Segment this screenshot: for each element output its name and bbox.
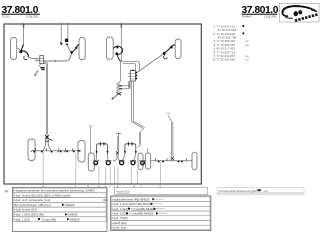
standpipe right stubs xyxy=(119,85,122,86)
hose FL xyxy=(113,46,122,54)
svg-text:(a): (a) xyxy=(245,54,249,58)
middle top single box xyxy=(115,188,208,195)
svg-text:77 30 914 731: 77 30 914 731 xyxy=(217,24,236,28)
left block rows xyxy=(13,188,106,221)
coupling nub at feed line top xyxy=(23,25,24,28)
staple U left xyxy=(97,144,108,155)
main diagram box xyxy=(4,24,201,184)
X connector xyxy=(171,157,174,161)
svg-text:Hydr. 1 (E4) (E50) (4B) MH009: Hydr. 1 (E4) (E50) (4B) MH009 xyxy=(112,202,152,206)
bottom-right single box xyxy=(217,188,304,195)
svg-text:77 04 955 443: 77 04 955 443 xyxy=(217,39,236,43)
svg-text:Hydr. 1 (E3): Hydr. 1 (E3) xyxy=(14,217,29,221)
axle line xyxy=(151,160,192,162)
curls xyxy=(94,161,145,165)
svg-text:MH009: MH009 xyxy=(65,203,75,207)
wheel RR xyxy=(192,152,197,170)
axle line xyxy=(32,150,81,152)
svg-text:Hydr. einheit (E1) (E3) (E50): Hydr. einheit (E1) (E3) (E50) (UABS) zwe… xyxy=(14,193,71,197)
svg-text:77 10 962 087: 77 10 962 087 xyxy=(217,43,236,47)
svg-text:Hydr. einh. einbauteile (zus): Hydr. einh. einbauteile (zus) xyxy=(14,198,50,202)
standpipe xyxy=(117,83,119,93)
title right "37.801.0" xyxy=(242,5,279,18)
wheel FR xyxy=(175,39,181,59)
hose FR xyxy=(164,45,175,53)
parts list right column xyxy=(214,24,249,61)
Y split to axle xyxy=(43,140,46,151)
line block to hose FR xyxy=(44,53,72,61)
title left "37.801.0" xyxy=(2,5,41,18)
svg-text:80 30 027 431: 80 30 027 431 xyxy=(217,47,236,51)
svg-text:77 04 905 719: 77 04 905 719 xyxy=(217,50,236,54)
ports xyxy=(135,72,137,74)
center X connector xyxy=(116,151,119,155)
svg-text:Bremsdruckregler (4B) (zus): Bremsdruckregler (4B) (zus) xyxy=(14,203,50,207)
union below block xyxy=(40,67,44,69)
left stubs xyxy=(128,74,131,77)
svg-text:7 (zus) (4B): 7 (zus) (4B) xyxy=(41,217,56,221)
fan line to unit xyxy=(137,54,163,72)
fitting lower-left xyxy=(39,64,40,67)
wheel RL xyxy=(146,153,151,169)
svg-text:Hydr. einheit (E4): Hydr. einheit (E4) xyxy=(14,208,36,212)
svg-text:(a): (a) xyxy=(245,43,249,47)
svg-text:7 (zus)(4B) MH009: 7 (zus)(4B) MH009 xyxy=(131,207,156,211)
svg-text:bremskreislauf abstuetzung (E3: bremskreislauf abstuetzung (E3) xyxy=(219,189,258,193)
svg-text:Hydr. 5 (E3): Hydr. 5 (E3) xyxy=(112,211,127,215)
right vertical pair xyxy=(140,129,143,132)
svg-text:Hydr. 1 (E3): Hydr. 1 (E3) xyxy=(112,207,127,211)
wheel RR xyxy=(78,141,85,163)
fittings xyxy=(156,158,187,162)
wheel RL xyxy=(88,153,94,171)
middle block rows xyxy=(111,196,211,231)
svg-text:Kontr. blue: Kontr. blue xyxy=(112,226,126,230)
feed line 3 xyxy=(67,23,69,39)
staple U right xyxy=(125,144,136,155)
leaders down xyxy=(99,167,138,184)
svg-text:(a): (a) xyxy=(245,39,249,43)
feed double with diagonal xyxy=(168,116,172,123)
hose FL xyxy=(18,48,21,51)
wheel RL xyxy=(28,139,35,161)
wheel FL xyxy=(11,38,17,60)
svg-text:7 (zus)(4B) MH009: 7 (zus)(4B) MH009 xyxy=(129,211,154,215)
feed line 1 xyxy=(23,23,25,45)
svg-text:MH009: MH009 xyxy=(68,213,78,217)
svg-text:(b): (b) xyxy=(103,198,107,202)
feed line 2 xyxy=(60,23,62,44)
stub above left wheel xyxy=(147,148,149,153)
svg-text:(a): (a) xyxy=(5,189,9,193)
hose FR xyxy=(72,44,79,52)
svg-text:(a): (a) xyxy=(245,58,249,62)
wheel FL xyxy=(106,37,113,59)
car sketch xyxy=(282,6,318,21)
svg-text:MH009: MH009 xyxy=(70,217,80,221)
curl tails / connecting bits xyxy=(94,160,145,162)
leader xyxy=(159,163,161,184)
svg-text:Hydr. 1 (E4) (E50) (4B): Hydr. 1 (E4) (E50) (4B) xyxy=(14,213,44,217)
svg-text:Hydr. 5 (E3): Hydr. 5 (E3) xyxy=(112,216,127,220)
fitting tail lower-left xyxy=(112,96,116,100)
junction connector xyxy=(45,135,52,140)
svg-text:zus: zus xyxy=(264,190,269,193)
standpipe X connector xyxy=(116,92,121,95)
svg-text:80 30 505 708: 80 30 505 708 xyxy=(218,36,237,40)
black square coupling on feed 3 xyxy=(65,39,68,43)
line above left wheel xyxy=(89,126,91,154)
feed standpipe with top tick xyxy=(116,132,121,134)
left stub of block xyxy=(36,60,40,62)
dots at staple bottoms xyxy=(96,151,98,153)
coupling nub at feed line top xyxy=(121,25,122,28)
svg-text:77 92 431 864: 77 92 431 864 xyxy=(217,58,236,62)
fittings xyxy=(31,148,81,153)
leader lines down xyxy=(42,152,44,184)
pipes below unit pair B going down then diagonal xyxy=(132,81,144,129)
svg-text:Hydraulikeinheit (4B) MH009: Hydraulikeinheit (4B) MH009 xyxy=(112,197,149,201)
svg-text:ebav5 (E3): ebav5 (E3) xyxy=(117,189,130,193)
callouts xyxy=(87,185,142,189)
svg-text:82 30 079 094: 82 30 079 094 xyxy=(218,28,237,32)
svg-text:PH464/2: PH464/2 xyxy=(242,15,252,18)
double pipe down xyxy=(44,62,48,135)
staple-to-curl connectors xyxy=(94,155,144,163)
ticks and dots on staples xyxy=(101,142,133,147)
left vertical down to standpipe xyxy=(119,62,121,83)
svg-text:77 34 453 900: 77 34 453 900 xyxy=(217,32,236,36)
wheel RR xyxy=(138,153,143,170)
svg-text:13.06.2001: 13.06.2001 xyxy=(264,15,277,18)
left block outer xyxy=(13,187,108,231)
line hose FL to block xyxy=(28,57,39,59)
feed line xyxy=(120,23,122,62)
ABS unit xyxy=(130,71,135,82)
pipes below unit pair A xyxy=(129,81,130,89)
svg-text:ebav5 (E3): ebav5 (E3) xyxy=(112,221,126,225)
wheel FR xyxy=(79,38,85,60)
svg-text:77 92 431 867: 77 92 431 867 xyxy=(217,54,236,58)
master cylinder block xyxy=(40,56,44,64)
svg-text:Hauptbremszylinder bremskraftv: Hauptbremszylinder bremskraftverstaerker… xyxy=(14,189,94,193)
svg-text:13.06.2001: 13.06.2001 xyxy=(26,15,39,18)
car thumbnail box xyxy=(280,4,320,23)
pipes above unit xyxy=(121,62,140,71)
svg-text:91.213: 91.213 xyxy=(2,15,10,18)
